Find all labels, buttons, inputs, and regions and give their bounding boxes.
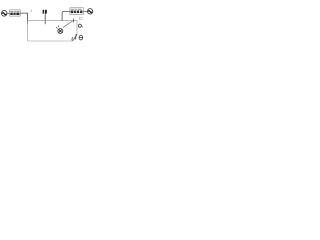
box B2 (receiver) with illegible text (70, 8, 84, 15)
lamp (circle with X) and light rays (56, 25, 63, 33)
AC source symbol (circle with wave) left (1, 11, 7, 17)
phone/AC symbol right (circle with bar) (87, 9, 92, 14)
numeral 10 with leader stem (43, 10, 47, 24)
numeral 9 mid right (78, 24, 83, 27)
numeral 8 near battery (79, 35, 83, 40)
box B1 (transmitter) with illegible text (10, 10, 21, 16)
wire from box B1 into loop top-left (20, 13, 27, 24)
wire from AC source to box B1 (7, 12, 10, 14)
battery diagonal in bottom-right corner (72, 34, 77, 41)
wire from box B2 to phone symbol (84, 10, 88, 12)
switch arm diagonal with contact tick (63, 19, 74, 28)
wire from box B2 down to loop top edge (62, 11, 70, 20)
numeral 7 upper right faint (79, 17, 82, 19)
faint numeral dot (31, 10, 32, 12)
main loop rectangle (open at bottom-right for battery) (28, 21, 77, 41)
